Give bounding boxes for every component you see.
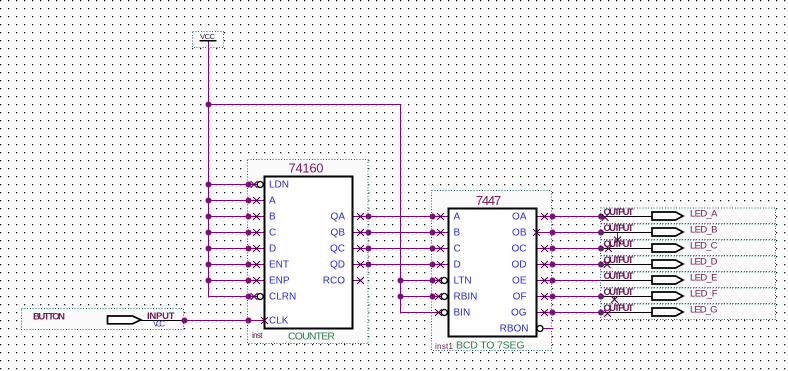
svg-text:BIN: BIN [454,308,471,319]
svg-text:OG: OG [511,308,527,319]
svg-text:OUTPUT: OUTPUT [604,271,634,282]
svg-text:LED_D: LED_D [690,257,718,268]
svg-text:ENP: ENP [269,276,290,287]
svg-text:OUTPUT: OUTPUT [604,223,634,234]
svg-text:RBIN: RBIN [454,292,478,303]
svg-text:A: A [269,196,276,207]
svg-text:CLRN: CLRN [269,292,296,303]
svg-text:OC: OC [512,244,527,255]
svg-text:COUNTER: COUNTER [288,330,335,342]
svg-text:OUTPUT: OUTPUT [604,287,634,298]
svg-text:D: D [454,260,461,271]
svg-text:D: D [269,244,276,255]
svg-text:QD: QD [330,260,345,271]
svg-text:OF: OF [513,292,527,303]
svg-text:VCC: VCC [200,32,216,41]
svg-text:LED_B: LED_B [690,225,718,236]
svg-text:OUTPUT: OUTPUT [604,255,634,266]
svg-text:OUTPUT: OUTPUT [604,207,634,218]
svg-text:BUTTON: BUTTON [33,312,65,323]
svg-text:BCD TO 7SEG: BCD TO 7SEG [456,340,525,352]
svg-text:7447: 7447 [476,193,502,208]
svg-text:CLK: CLK [269,316,289,327]
svg-text:QB: QB [331,228,346,239]
svg-text:RCO: RCO [323,276,345,287]
svg-text:A: A [454,212,461,223]
svg-text:B: B [454,228,461,239]
svg-text:inst: inst [252,331,263,340]
svg-text:LED_C: LED_C [690,241,718,252]
svg-text:LED_A: LED_A [690,209,718,220]
svg-text:RBON: RBON [500,324,529,335]
svg-text:LTN: LTN [454,276,472,287]
svg-text:C: C [454,244,461,255]
svg-text:VCC: VCC [153,320,165,329]
svg-text:LDN: LDN [269,180,289,191]
svg-text:inst1: inst1 [435,342,454,351]
svg-text:QA: QA [331,212,346,223]
svg-text:LED_E: LED_E [690,273,718,284]
svg-text:QC: QC [330,244,345,255]
svg-text:74160: 74160 [289,161,324,176]
svg-text:LED_F: LED_F [690,289,718,300]
svg-text:LED_G: LED_G [690,305,718,316]
svg-text:OD: OD [512,260,527,271]
svg-text:B: B [269,212,276,223]
svg-text:C: C [269,228,276,239]
svg-text:OE: OE [512,276,527,287]
svg-text:OA: OA [512,212,527,223]
svg-text:ENT: ENT [269,260,289,271]
svg-text:OB: OB [512,228,527,239]
